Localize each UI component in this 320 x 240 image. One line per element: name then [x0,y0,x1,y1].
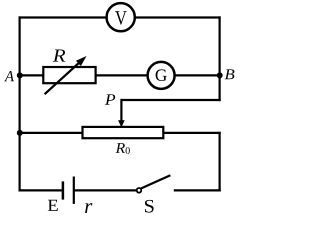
voltmeter V [107,3,135,31]
wire node A to resistor R [20,74,45,76]
wire battery to switch [74,189,137,191]
wire right vertical lower (R0 down to bottom corner) [219,132,221,192]
slider P arrow onto R0 [118,99,125,128]
wire bottom left (corner to battery) [19,189,62,191]
wire left vertical (A branch, top corner to bottom corner) [19,16,21,191]
label S [145,200,154,213]
label B [225,69,235,79]
galvanometer G [148,62,175,89]
wire top right segment [135,16,221,18]
label R0 [116,143,130,154]
label A [4,71,14,81]
junction node on left rail at R0 branch [17,130,23,136]
wire top left segment [19,16,107,18]
node A [17,72,23,78]
rheostat R0 box [83,127,164,138]
switch S [137,175,171,192]
battery E with internal resistance r [63,177,74,204]
wire galvanometer G to node B [174,74,220,76]
wire P feed horizontal (from right rail to slider arrow) [121,99,220,101]
label r [85,203,92,213]
wire resistor R to galvanometer G [95,74,148,76]
wire left rail to R0 [20,132,83,134]
wire right vertical upper (top corner down to node B and P feed corner) [219,16,221,101]
node B [217,72,223,78]
wire R0 to right rail [163,132,221,134]
label E [48,200,58,211]
label R [53,49,66,61]
resistor R (variable, box with diagonal arrow) [43,56,95,94]
wire switch to bottom right corner [174,189,221,191]
label P [105,94,115,104]
